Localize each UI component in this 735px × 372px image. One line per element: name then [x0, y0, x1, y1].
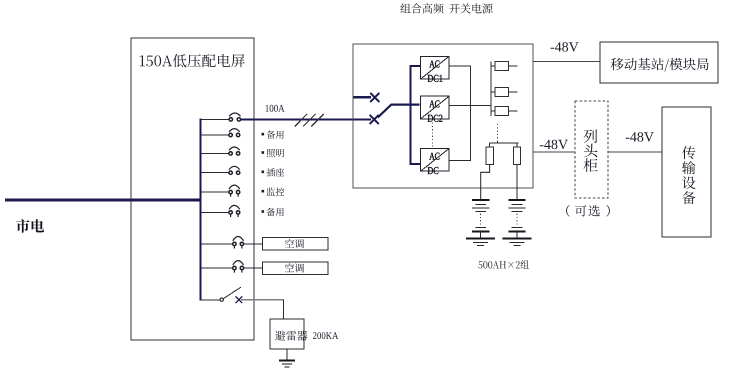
wire: AC/DC3 output — [449, 160, 471, 162]
wire: -48V to head cabinet — [533, 151, 575, 153]
bus: panel vertical bus — [199, 118, 201, 300]
breaker QF2 备用 — [201, 129, 240, 137]
breaker QF8 空调2 — [201, 261, 263, 273]
marker: 3-phase slashes — [295, 114, 324, 127]
label: 市电 (mains) — [16, 219, 44, 233]
wire: to arrester (vertical) — [283, 300, 285, 319]
label: -48V (middle) — [540, 140, 568, 150]
label: 500AH×2组 — [478, 260, 528, 269]
marker: X main input — [370, 115, 378, 123]
marker: more modules ellipsis — [432, 123, 434, 147]
label: -48V (top) — [551, 42, 579, 52]
wire: -48V head cabinet to transmission — [608, 151, 662, 153]
label: 插座 — [262, 168, 285, 176]
wire: mains feed 市电 — [5, 199, 202, 202]
label: 监控 — [262, 188, 285, 196]
wire: to arrester (horizontal) — [241, 299, 284, 301]
switch: arrester disconnect — [201, 287, 241, 301]
label: （可选） — [566, 205, 610, 217]
bus: rectifier AC bus — [409, 66, 411, 165]
wire: spare AC input — [354, 96, 371, 98]
wire: -48V to base station — [533, 60, 600, 62]
wire: to battery 1 — [481, 164, 490, 199]
label: 200KA — [313, 332, 338, 339]
rectifier module U1 AC/DC1 — [421, 56, 450, 82]
label: title 组合高频 开关电源 — [400, 3, 492, 13]
fuse F1 load branch — [491, 62, 518, 71]
load box: 传输设备 — [662, 107, 711, 237]
marker: X spare input — [371, 93, 379, 101]
wire: arrester to ground — [286, 349, 288, 360]
load box: 空调 1 — [263, 238, 329, 251]
label: 备用 — [262, 208, 284, 216]
marker: more fuses ellipsis — [497, 124, 499, 142]
marker: X on arrester branch — [236, 297, 242, 303]
wire: AC/DC1 output — [449, 65, 471, 67]
surge arrester 避雷器 box — [270, 319, 308, 349]
breaker QF5 监控 — [201, 185, 240, 197]
label: 备用 — [262, 130, 284, 138]
wire: to battery 2 — [516, 164, 518, 199]
battery string GB2 with ground — [503, 200, 532, 245]
fuse: battery string 2 — [513, 147, 520, 165]
label: 150A低压配电屏 — [140, 54, 245, 68]
cabinet: switching power supply box — [353, 44, 533, 188]
optional box: 列头柜 (dashed) — [575, 101, 608, 198]
rectifier module U3 AC/DC — [421, 149, 450, 175]
fuse F2 load branch — [491, 88, 518, 97]
breaker QF6 备用 — [201, 205, 240, 217]
rectifier module U2 AC/DC2 — [421, 96, 450, 122]
wire: battery fuse header — [490, 141, 519, 147]
wire: input riser diagonal — [378, 105, 420, 118]
bus: DC collector — [469, 66, 471, 161]
label: 100A — [266, 105, 285, 112]
load box: 移动基站/模块局 — [600, 42, 718, 83]
breaker QF7 空调1 — [201, 237, 263, 249]
wire: 100A feed to rectifier cabinet — [240, 118, 371, 120]
breaker QF4 插座 — [201, 166, 240, 174]
wire: AC/DC2 output to DC bus — [449, 104, 491, 106]
label: 照明 — [262, 149, 285, 157]
breaker QF3 照明 — [201, 147, 240, 155]
panel: 150A low-voltage distribution panel box — [131, 38, 254, 340]
bus: DC distribution — [490, 62, 492, 117]
wire: AC bus to AC/DC1 — [410, 65, 421, 67]
breaker QF1 100A feed — [201, 113, 241, 121]
fuse: battery string 1 — [486, 147, 493, 165]
battery string GB1 with ground — [466, 200, 495, 245]
fuse F3 load branch — [491, 107, 518, 116]
label: -48V (right) — [626, 132, 654, 142]
wire: AC bus to AC/DC3 — [410, 163, 421, 165]
load box: 空调 2 — [263, 262, 329, 275]
ground: arrester earth — [279, 361, 295, 368]
